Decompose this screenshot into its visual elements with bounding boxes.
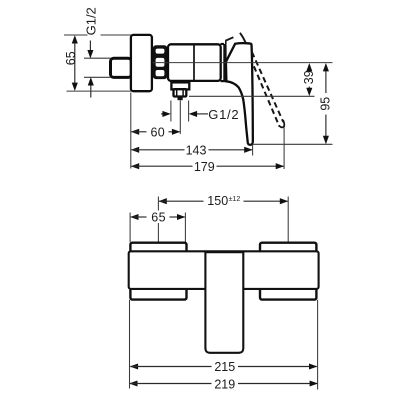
body bottom to plate join (221, 80, 227, 82)
wall connector G1/2 (side view) (111, 58, 132, 77)
extension line flange left (shared 60/143/179) (130, 93, 132, 169)
union nut facet middle (156, 58, 165, 67)
left escutcheon top cap (front) (130, 243, 186, 254)
svg-text:95: 95 (319, 97, 333, 111)
tick at connector bottom (84, 76, 111, 78)
arrow to nipple right edge with leader (196, 113, 208, 115)
extension line nipple right (188, 101, 190, 122)
svg-text:179: 179 (194, 160, 215, 174)
extension line handle front (252, 145, 254, 156)
open-position lever top edge right segment (240, 33, 246, 43)
svg-text:±12: ±12 (229, 196, 241, 203)
extension line body right (215/219) (317, 300, 319, 390)
dim 60 (131, 129, 139, 135)
extension line left connection centre (157, 197, 159, 211)
svg-text:219: 219 (214, 377, 235, 391)
union hex nut (side view) (153, 45, 167, 79)
svg-text:150: 150 (207, 194, 228, 208)
arrow to nipple left edge (161, 113, 164, 115)
extension lines flange width (65) (129, 213, 131, 243)
leader arrow up to connector bottom (90, 84, 92, 98)
right escutcheon bottom cap (front) (260, 288, 316, 300)
right escutcheon top cap (front) (260, 243, 316, 254)
union nut facet lower (156, 70, 165, 76)
outlet hex nut (174, 89, 187, 96)
dim 95 vertical (325, 70, 327, 94)
extension line outlet centre (179, 101, 181, 135)
extension line nipple left (170, 101, 172, 122)
mixer body bar (front) (129, 251, 319, 289)
open-position lever top edge left segment (225, 41, 227, 44)
tick handle tip level (95 reference) (253, 143, 333, 145)
svg-text:65: 65 (64, 51, 78, 65)
dim 65 (front) (130, 214, 138, 220)
dim 143 (131, 147, 139, 153)
dim 150±12 (158, 198, 166, 204)
mixer body (side view) (168, 44, 221, 81)
body joint line (193, 45, 195, 80)
svg-text:G1/2: G1/2 (84, 7, 99, 35)
extension line body left (215/219) (129, 300, 131, 389)
handle cover plate (side view) (223, 44, 226, 82)
extension line open lever tip (283, 128, 285, 170)
svg-text:143: 143 (186, 144, 207, 158)
dim 215 (130, 363, 138, 369)
escutcheon / wall flange (side view) (131, 35, 152, 91)
dim 65 vertical line with arrows (74, 42, 76, 86)
centerline of mixer (side view) (153, 62, 333, 64)
svg-text:39: 39 (302, 70, 316, 84)
handle block (front) (205, 252, 243, 353)
leader arrow down to connector top (89, 41, 91, 53)
dim 179 (131, 163, 139, 169)
outlet nipple G1/2 (178, 97, 181, 100)
svg-text:65: 65 (151, 211, 166, 225)
union nut facet upper (156, 49, 165, 54)
left escutcheon bottom cap (front) (130, 288, 186, 300)
open-position lever dashed edge (lower) (254, 66, 280, 126)
dim 65 (flange height) ticks (64, 34, 88, 36)
dim 39 vertical (308, 69, 310, 71)
extension line right connection centre (287, 197, 289, 253)
open-position lever tip (solid) (279, 120, 284, 127)
svg-text:G1/2: G1/2 (208, 107, 239, 122)
tick outlet bottom level (39 reference) (189, 95, 315, 97)
dim 219 (129, 380, 137, 386)
tick at connector top (84, 57, 111, 59)
svg-text:60: 60 (150, 126, 165, 140)
lever handle (side view) (226, 43, 253, 145)
open-position lever dashed edge (upper) (252, 52, 283, 122)
outlet housing under body (171, 82, 189, 89)
svg-text:215: 215 (214, 360, 235, 374)
